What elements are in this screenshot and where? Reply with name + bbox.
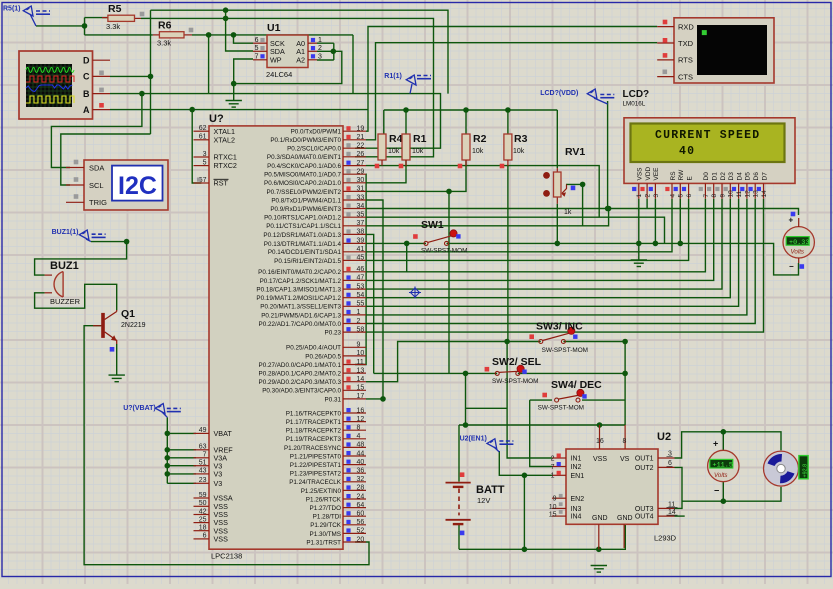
wire: LCD VDD probe drop: [607, 101, 609, 209]
svg-text:P0.29/AD0.2/CAP0.3/MAT0.3: P0.29/AD0.2/CAP0.3/MAT0.3: [259, 379, 342, 386]
svg-text:26: 26: [357, 151, 365, 158]
U? pin 33 P0.8/TxD1/PWM4/AD1.1: [343, 199, 366, 201]
wire: P0.15 row to LCD E: [366, 199, 689, 261]
svg-text:RV1: RV1: [565, 146, 585, 158]
svg-text:6: 6: [203, 533, 207, 540]
wire: ground rail y=549.3: [459, 524, 625, 549]
U? pin 32 P1.24/TRACECLK: [343, 481, 366, 483]
svg-text:5: 5: [255, 45, 259, 52]
svg-text:R1(1): R1(1): [384, 73, 402, 80]
wire: P0.10 row y=217.2: [366, 217, 665, 243]
svg-text:P0.17/CAP1.2/SCK1/MAT1.2: P0.17/CAP1.2/SCK1/MAT1.2: [260, 278, 342, 285]
wire: R2 bottom to P0.7: [366, 160, 466, 191]
wire: U1 WP to ground: [234, 59, 253, 101]
svg-text:3.3k: 3.3k: [106, 22, 120, 31]
U? pin 10 P0.26/AD0.5: [343, 355, 366, 357]
wire: SW2 branch to battery rail: [465, 373, 467, 425]
wire: battery plus rail y=425: [459, 424, 625, 426]
wire: U1 address bracket: [333, 43, 335, 60]
U? pin 26 P0.3/SDA0/MAT0.0/EINT1: [343, 156, 366, 158]
wire: OUT4 stub wire: [675, 515, 685, 517]
U? pin 38 P0.12/DSR1/MAT1.0/AD1.3: [343, 233, 366, 235]
wire: OUT1 to motor top rail: [675, 432, 782, 458]
svg-text:13: 13: [357, 367, 365, 374]
svg-text:U2: U2: [657, 431, 671, 443]
svg-text:Volts: Volts: [791, 249, 805, 256]
svg-text:24: 24: [357, 493, 365, 500]
svg-text:+92.8: +92.8: [803, 464, 809, 478]
svg-text:33: 33: [357, 194, 365, 201]
wire: R1 bottom to P0.6: [366, 160, 406, 183]
U? pin 24 P1.26/RTCK: [343, 498, 366, 500]
svg-text:1: 1: [551, 473, 555, 480]
wire R4 bottom: [381, 165, 383, 167]
svg-text:IN4: IN4: [571, 514, 582, 521]
svg-text:BUZ1(1): BUZ1(1): [52, 229, 79, 236]
svg-text:2: 2: [645, 194, 652, 198]
svg-text:P1.30/TMS: P1.30/TMS: [310, 531, 342, 538]
wire: LCD pin1 VSS to ground: [638, 199, 640, 260]
wire: supply pin row: [167, 465, 196, 467]
U? pin 35 P0.10/RTS1/CAP1.0/AD1.2: [343, 216, 366, 218]
svg-text:1k: 1k: [564, 209, 572, 216]
wire: A0A1A2 to ground run y=83.6: [234, 51, 342, 83]
svg-text:P0.30/AD0.3/EINT3/CAP0.0: P0.30/AD0.3/EINT3/CAP0.0: [262, 388, 341, 395]
U? pin 49 VBAT: [194, 432, 210, 434]
svg-text:P0.15/RI1/EINT2/AD1.5: P0.15/RI1/EINT2/AD1.5: [274, 258, 341, 265]
wire: RV1 wiper link: [566, 184, 583, 225]
wire: SW4 row: [530, 399, 552, 401]
svg-text:B: B: [83, 89, 90, 99]
svg-text:R6: R6: [158, 20, 172, 32]
U? pin 12 P1.17/TRACEPKT1: [343, 421, 366, 423]
svg-text:48: 48: [357, 442, 365, 449]
svg-text:P1.27/TDO: P1.27/TDO: [310, 505, 342, 512]
wire: P0.8 to P0.31 vertical x=383: [366, 200, 383, 399]
svg-text:OUT4: OUT4: [635, 514, 654, 521]
svg-text:50: 50: [199, 500, 207, 507]
wire: SW3 to IN1 vertical x=507.1: [507, 342, 552, 459]
switch SW2/ SEL: [495, 371, 499, 375]
wire: supply pin row: [167, 473, 196, 475]
U? pin 42 VSS: [194, 514, 210, 516]
voltmeter +11.5: [708, 450, 739, 481]
svg-text:−: −: [714, 486, 719, 496]
U? pin 45 P0.15/RI1/EINT2/AD1.5: [343, 259, 366, 261]
svg-text:P1.20/TRACESYNC: P1.20/TRACESYNC: [284, 445, 341, 452]
svg-text:52: 52: [357, 528, 365, 535]
U? pin 55 P0.20/MAT1.3/SSEL1/EINT3: [343, 305, 366, 307]
svg-text:7: 7: [255, 54, 259, 61]
svg-text:10k: 10k: [388, 148, 400, 155]
svg-text:LPC2138: LPC2138: [211, 552, 242, 561]
svg-text:VSS: VSS: [637, 167, 644, 181]
svg-text:9: 9: [357, 342, 361, 349]
oscilloscope trace yellow: [26, 96, 74, 103]
svg-text:42: 42: [199, 508, 207, 515]
svg-text:P0.0/TxD0/PWM1: P0.0/TxD0/PWM1: [291, 129, 342, 136]
wire: VBAT probe column: [166, 417, 168, 483]
svg-text:VSS: VSS: [593, 456, 607, 463]
svg-text:P0.13/DTR1/MAT1.1/AD1.4: P0.13/DTR1/MAT1.1/AD1.4: [264, 241, 342, 248]
U? pin 28 P1.25/EXTIN0: [343, 489, 366, 491]
oscilloscope trace red: [26, 76, 74, 82]
svg-text:8: 8: [357, 425, 361, 432]
wire: P0.1 RXD0 to terminal TXD: [366, 43, 657, 140]
resistor R1: [402, 134, 410, 160]
svg-text:P0.9/RxD1/PWM6/EINT3: P0.9/RxD1/PWM6/EINT3: [270, 206, 341, 213]
U? pin 18 VSS: [194, 530, 210, 532]
svg-text:28: 28: [357, 485, 365, 492]
svg-text:SW-SPST-MOM: SW-SPST-MOM: [538, 404, 584, 411]
svg-text:27: 27: [357, 160, 365, 167]
svg-text:CURRENT SPEED: CURRENT SPEED: [655, 129, 760, 142]
svg-text:CTS: CTS: [678, 72, 693, 81]
U? pin 23 V3: [194, 482, 210, 484]
wire: x=353 drop: [352, 35, 354, 94]
U? pin 3 RTXC1: [194, 156, 210, 158]
svg-text:P0.28/AD0.1/CAP0.2/MAT0.2: P0.28/AD0.1/CAP0.2/MAT0.2: [259, 371, 342, 378]
U? pin 6 VSS: [194, 538, 210, 540]
U? pin 7 V3A: [194, 457, 210, 459]
svg-text:+: +: [789, 216, 794, 225]
svg-text:D3: D3: [728, 172, 735, 181]
svg-text:2: 2: [551, 455, 555, 462]
svg-text:R1: R1: [413, 133, 427, 145]
resistor R2: [462, 134, 470, 160]
resistor R6: [153, 34, 160, 36]
switch SW4/ DEC: [555, 398, 559, 402]
svg-text:+0.33: +0.33: [789, 239, 809, 247]
svg-text:30: 30: [357, 177, 365, 184]
wire: RV1 bottom to ground row: [556, 204, 558, 244]
svg-text:3: 3: [653, 194, 660, 198]
svg-text:OUT1: OUT1: [635, 456, 654, 463]
wire: line B y=18.4 to P0.3 pin 26: [151, 18, 434, 156]
svg-text:D: D: [83, 55, 90, 65]
wire: supply pin row: [167, 449, 196, 451]
svg-text:35: 35: [357, 212, 365, 219]
svg-text:22: 22: [357, 143, 365, 150]
wire: EN1 branch to bottom rail: [523, 475, 525, 549]
U? pin 46 P0.16/EINT0/MAT0.2/CAP0.2: [343, 271, 366, 273]
U? pin 16 P1.16/TRACEPKT0: [343, 412, 366, 414]
svg-text:31: 31: [357, 186, 365, 193]
svg-text:P0.26/AD0.5: P0.26/AD0.5: [305, 353, 341, 360]
U? pin 22 P0.2/SCL0/CAP0.0: [343, 147, 366, 149]
svg-text:58: 58: [357, 326, 365, 333]
ground under L293D: [591, 565, 607, 567]
svg-text:9: 9: [553, 496, 557, 503]
svg-text:1: 1: [357, 309, 361, 316]
svg-text:A2: A2: [296, 56, 305, 65]
wire: supply pin row: [167, 482, 196, 484]
svg-text:51: 51: [199, 460, 207, 467]
svg-text:61: 61: [199, 134, 207, 141]
svg-text:SCL: SCL: [89, 181, 104, 190]
ground under Q1: [109, 374, 125, 376]
svg-text:59: 59: [199, 492, 207, 499]
wire: SW1 branch down x=406.7: [406, 243, 408, 271]
wire: buzzer pin2 to Q1 collector: [35, 284, 117, 310]
svg-text:P0.8/TxD1/PWM4/AD1.1: P0.8/TxD1/PWM4/AD1.1: [271, 197, 341, 204]
svg-text:RTXC2: RTXC2: [214, 161, 237, 170]
U? pin 20 P1.31/TRST: [343, 541, 366, 543]
svg-text:OUT3: OUT3: [635, 506, 654, 513]
wire: vertical x=150.5: [150, 10, 152, 134]
svg-text:D1: D1: [712, 172, 719, 181]
svg-text:BUZ1: BUZ1: [50, 260, 79, 272]
wire: LCD data D6 bus row: [366, 199, 755, 324]
svg-text:D2: D2: [720, 172, 727, 181]
svg-text:1: 1: [636, 194, 643, 198]
U? pin 40 P1.22/PIPESTAT1: [343, 464, 366, 466]
motor angle readout: [799, 456, 808, 479]
U? pin 54 P0.19/MAT1.2/MOSI1/CAP1.2: [343, 297, 366, 299]
svg-text:P1.22/PIPESTAT1: P1.22/PIPESTAT1: [290, 462, 342, 469]
svg-text:34: 34: [357, 203, 365, 210]
svg-text:P0.14/DCD1/EINT1/SDA1: P0.14/DCD1/EINT1/SDA1: [268, 249, 342, 256]
svg-text:P0.25/AD0.4/AOUT: P0.25/AD0.4/AOUT: [286, 345, 341, 352]
svg-text:P0.16/EINT0/MAT0.2/CAP0.2: P0.16/EINT0/MAT0.2/CAP0.2: [258, 269, 341, 276]
wire: R6 right row y=34.9: [192, 34, 353, 36]
svg-text:21: 21: [357, 134, 365, 141]
svg-text:GND: GND: [617, 515, 633, 522]
wire: B branch to I2C SDA: [51, 94, 141, 168]
svg-text:54: 54: [357, 292, 365, 299]
svg-text:SW-SPST-MOM: SW-SPST-MOM: [421, 248, 467, 255]
wire: LCD data D1 bus row: [366, 199, 714, 281]
wire: IN1 branch y=408.3: [466, 407, 508, 409]
wire: Q1 base run to P1.31: [84, 326, 369, 565]
wire: EN1 row with probe: [499, 451, 552, 475]
svg-text:P0.11/CTS1/CAP1.1/SCL1: P0.11/CTS1/CAP1.1/SCL1: [266, 223, 341, 230]
svg-text:SW3/ INC: SW3/ INC: [536, 321, 583, 333]
svg-text:2: 2: [318, 45, 322, 52]
svg-text:10k: 10k: [513, 148, 525, 155]
U? pin 17 P0.31: [343, 398, 366, 400]
svg-text:D0: D0: [703, 172, 710, 181]
switch SW1: [424, 241, 428, 245]
U? pin 57 RST: [194, 182, 210, 184]
svg-text:Volts: Volts: [714, 472, 728, 479]
U? pin 48 P1.20/TRACESYNC: [343, 446, 366, 448]
svg-text:3: 3: [318, 54, 322, 61]
svg-text:D4: D4: [736, 172, 743, 181]
svg-text:3: 3: [203, 151, 207, 158]
wire: U1 SCK branch: [234, 35, 254, 43]
U? pin 64 P1.27/TDO: [343, 507, 366, 509]
wire: LCD data D5 bus row: [366, 199, 747, 315]
U? pin 8 P1.18/TRACEPKT2: [343, 429, 366, 431]
svg-text:P1.18/TRACEPKT2: P1.18/TRACEPKT2: [286, 428, 342, 435]
svg-text:56: 56: [357, 519, 365, 526]
svg-text:BATT: BATT: [476, 484, 505, 496]
svg-text:TXD: TXD: [678, 39, 694, 48]
battery BATT 12V: [446, 482, 471, 484]
wire R3 bottom to SW3 row: [507, 166, 509, 342]
svg-text:P0.4/SCK0/CAP0.1/AD0.6: P0.4/SCK0/CAP0.1/AD0.6: [267, 163, 341, 170]
svg-text:P0.31: P0.31: [325, 396, 342, 403]
svg-text:P0.3/SDA0/MAT0.0/EINT1: P0.3/SDA0/MAT0.0/EINT1: [267, 154, 342, 161]
svg-text:P0.10/RTS1/CAP1.0/AD1.2: P0.10/RTS1/CAP1.0/AD1.2: [264, 215, 341, 222]
svg-text:XTAL2: XTAL2: [214, 135, 235, 144]
wire: Q1 emitter to ground: [116, 344, 118, 375]
wire: P0.31 row: [366, 398, 383, 400]
svg-text:7: 7: [203, 452, 207, 459]
U? pin 29 P0.5/MISO0/MAT0.1/AD0.7: [343, 173, 366, 175]
wire: x=150.5 foot to SCL stub: [61, 134, 151, 185]
svg-text:RTS: RTS: [678, 56, 693, 65]
svg-text:EN1: EN1: [571, 473, 585, 480]
svg-text:R3: R3: [514, 133, 528, 145]
svg-text:SW2/ SEL: SW2/ SEL: [492, 356, 542, 368]
svg-text:VEE: VEE: [653, 167, 660, 181]
svg-text:I2C: I2C: [118, 172, 157, 200]
wire: R2 row branch down x=449: [448, 191, 450, 373]
svg-text:E: E: [686, 176, 693, 181]
oscilloscope trace green: [26, 68, 74, 73]
svg-text:10k: 10k: [472, 148, 484, 155]
motor driver U2 L293D: [566, 449, 658, 524]
svg-text:16: 16: [357, 407, 365, 414]
origin marker: [409, 287, 421, 299]
svg-text:TRIG: TRIG: [89, 198, 107, 207]
svg-text:P1.17/TRACEPKT1: P1.17/TRACEPKT1: [286, 419, 342, 426]
svg-text:U1: U1: [267, 22, 281, 34]
wire: to R5 left: [85, 17, 108, 19]
svg-text:44: 44: [357, 450, 365, 457]
svg-text:18: 18: [199, 525, 207, 532]
svg-text:4: 4: [669, 194, 676, 198]
svg-text:14: 14: [357, 376, 365, 383]
svg-text:VBAT: VBAT: [214, 429, 233, 438]
U? pin 58 P0.23: [343, 331, 366, 333]
svg-text:SW1: SW1: [421, 219, 444, 231]
svg-text:C: C: [83, 72, 90, 82]
virtual terminal: [674, 18, 774, 83]
U? pin 1 P0.21/PWM5/AD1.6/CAP1.3: [343, 314, 366, 316]
switch SW3/ INC: [539, 340, 543, 344]
svg-text:P0.5/MISO0/MAT0.1/AD0.7: P0.5/MISO0/MAT0.1/AD0.7: [264, 172, 341, 179]
svg-text:46: 46: [357, 266, 365, 273]
svg-text:VDD: VDD: [645, 166, 652, 180]
U? pin 47 P0.17/CAP1.2/SCK1/MAT1.2: [343, 279, 366, 281]
svg-text:EN2: EN2: [571, 496, 585, 503]
svg-text:SW-SPST-MOM: SW-SPST-MOM: [492, 378, 538, 385]
svg-text:D5: D5: [745, 172, 752, 181]
svg-text:IN3: IN3: [571, 506, 582, 513]
svg-text:60: 60: [357, 511, 365, 518]
U? pin 43 V3: [194, 473, 210, 475]
wire: supply pin row: [167, 457, 196, 459]
U? pin 9 P0.25/AD0.4/AOUT: [343, 346, 366, 348]
resistor R5: [135, 17, 142, 19]
svg-text:OUT2: OUT2: [635, 465, 654, 472]
svg-text:29: 29: [357, 169, 365, 176]
U? pin 62 XTAL1: [194, 130, 210, 132]
svg-text:P1.19/TRACEPKT3: P1.19/TRACEPKT3: [286, 436, 342, 443]
svg-text:P0.22/AD1.7/CAP0.0/MAT0.0: P0.22/AD1.7/CAP0.0/MAT0.0: [259, 321, 342, 328]
wire: LCD data D4 bus row: [366, 199, 739, 307]
U? pin 30 P0.6/MOSI0/CAP0.2/AD1.0: [343, 182, 366, 184]
U? pin 53 P0.18/CAP1.3/MISO1/MAT1.3: [343, 288, 366, 290]
svg-text:GND: GND: [592, 515, 608, 522]
U? pin 36 P1.23/PIPESTAT2: [343, 472, 366, 474]
I2C debugger: [84, 160, 168, 210]
svg-text:IN2: IN2: [571, 464, 582, 471]
svg-text:5: 5: [678, 194, 685, 198]
microcontroller U? LPC2138: [209, 126, 343, 549]
wire: R5 right to junction column: [141, 17, 151, 19]
svg-text:D6: D6: [753, 172, 760, 181]
U? pin 59 VSSA: [194, 497, 210, 499]
U? pin 4 P1.19/TRACEPKT3: [343, 438, 366, 440]
wire: battery bottom lead: [458, 525, 460, 550]
svg-text:7: 7: [703, 194, 710, 198]
svg-text:8: 8: [711, 194, 718, 198]
wire: P0.12 to SW2 vertical x=373.7: [366, 234, 374, 373]
wire: line A y=10.2: [151, 10, 449, 93]
svg-text:37: 37: [357, 220, 365, 227]
svg-text:R5: R5: [108, 3, 122, 15]
wire: oscilloscope A channel: [110, 109, 368, 111]
svg-text:P0.27/AD0.0/CAP0.1/MAT0.1: P0.27/AD0.0/CAP0.1/MAT0.1: [259, 362, 342, 369]
svg-text:R5(1): R5(1): [3, 6, 21, 13]
wire: P0.4 long row to RV1 column: [366, 166, 599, 218]
svg-text:24LC64: 24LC64: [266, 70, 292, 79]
wire: LCD data D7 bus row: [366, 199, 764, 332]
wire: LCD pin3 VEE to ground row: [654, 199, 656, 244]
svg-text:55: 55: [357, 301, 365, 308]
svg-text:10: 10: [549, 504, 557, 511]
svg-text:A: A: [83, 105, 90, 115]
svg-text:P1.28/TDI: P1.28/TDI: [313, 514, 342, 521]
svg-text:8: 8: [623, 438, 627, 445]
potentiometer RV1: [556, 168, 558, 172]
svg-text:P0.21/PWM5/AD1.6/CAP1.3: P0.21/PWM5/AD1.6/CAP1.3: [261, 312, 341, 319]
wire: P0.5 to P0.27 vertical x=366: [355, 174, 366, 364]
svg-text:P0.23: P0.23: [325, 330, 342, 337]
svg-text:15: 15: [357, 385, 365, 392]
svg-text:9: 9: [719, 194, 726, 198]
wire: switch common vertical x=625.1: [624, 342, 626, 426]
svg-text:RS: RS: [670, 171, 677, 181]
svg-text:15: 15: [549, 512, 557, 519]
svg-text:P1.29/TCK: P1.29/TCK: [310, 522, 342, 529]
wire: y=93.6 run to P0.2 pin 22: [209, 94, 441, 149]
svg-text:10k: 10k: [412, 148, 424, 155]
eeprom U1 24LC64: [267, 35, 308, 68]
U? pin 50 VSS: [194, 505, 210, 507]
svg-text:SW4/ DEC: SW4/ DEC: [551, 379, 602, 391]
svg-text:R2: R2: [473, 133, 487, 145]
svg-text:10: 10: [357, 350, 365, 357]
svg-text:U2(EN1): U2(EN1): [460, 436, 487, 443]
svg-text:4: 4: [357, 433, 361, 440]
svg-text:2: 2: [357, 318, 361, 325]
svg-text:RW: RW: [678, 169, 685, 181]
wire: P0.11 row y=225.8 with RV1 wiper: [366, 209, 609, 226]
svg-text:12V: 12V: [477, 496, 490, 505]
svg-text:IN1: IN1: [571, 456, 582, 463]
svg-text:LM016L: LM016L: [623, 101, 646, 108]
svg-text:P0.12/DSR1/MAT1.0/AD1.3: P0.12/DSR1/MAT1.0/AD1.3: [263, 232, 341, 239]
svg-text:+: +: [713, 439, 718, 449]
svg-text:P1.16/TRACEPKT0: P1.16/TRACEPKT0: [286, 410, 342, 417]
svg-text:U?: U?: [209, 113, 224, 125]
svg-text:+11.5: +11.5: [713, 462, 733, 470]
